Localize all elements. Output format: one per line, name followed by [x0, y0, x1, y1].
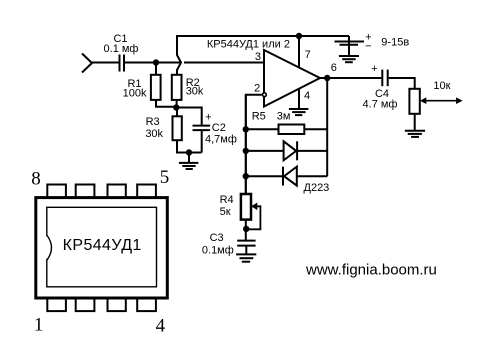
svg-text:3м: 3м	[277, 110, 291, 122]
capacitor C4	[381, 70, 383, 87]
diode VD1	[246, 150, 284, 152]
resistor R5	[246, 128, 279, 130]
svg-text:R4: R4	[220, 194, 234, 206]
pin 2 wire	[246, 95, 262, 194]
svg-text:C2: C2	[212, 122, 226, 134]
svg-text:4.7 мф: 4.7 мф	[363, 99, 398, 111]
battery plates 9-15v	[335, 41, 365, 43]
ground under R3/C2	[188, 153, 190, 163]
wire node B to C2	[176, 108, 201, 125]
R4 wiper	[246, 206, 260, 229]
op-amp U1	[264, 50, 320, 107]
IC package outline	[36, 198, 168, 298]
battery stem	[348, 36, 350, 56]
svg-text:www.fignia.boom.ru: www.fignia.boom.ru	[305, 261, 437, 278]
ground under battery	[339, 55, 359, 57]
capacitor C3	[237, 240, 255, 242]
top supply rail	[176, 35, 349, 37]
capacitor C2	[193, 125, 211, 127]
junction dot R4/C3	[243, 226, 249, 232]
capacitor C1	[119, 55, 121, 72]
junction dot pin7	[296, 33, 302, 39]
svg-text:R5: R5	[252, 110, 266, 122]
wire C4 to pot	[389, 78, 415, 89]
svg-text:7: 7	[305, 49, 311, 61]
svg-text:R3: R3	[146, 116, 160, 128]
IC pin 4 box bottom	[137, 298, 156, 311]
svg-text:4: 4	[304, 90, 310, 102]
IC pin 6 box top	[108, 185, 126, 198]
node B junction dot	[173, 104, 179, 110]
pin 4 wire	[298, 89, 300, 108]
junction dot	[186, 149, 192, 155]
svg-text:4,7мф: 4,7мф	[205, 134, 237, 146]
svg-text:−: −	[365, 41, 371, 53]
svg-text:0.1 мф: 0.1 мф	[104, 43, 139, 55]
pin 7 wire	[298, 36, 300, 68]
ground at pin 4	[289, 108, 309, 110]
svg-text:6: 6	[331, 62, 337, 74]
wire R4 to C3	[245, 220, 247, 240]
svg-text:C3: C3	[210, 232, 224, 244]
potentiometer R4 body	[241, 194, 251, 220]
right feedback rail	[326, 78, 328, 176]
output junction dot	[324, 75, 330, 81]
output wire pin 6	[320, 77, 381, 79]
pot wiper double arrow	[424, 100, 458, 102]
IC pin 3 box bottom	[108, 298, 126, 311]
feedback left rail	[245, 95, 247, 194]
wire hop crossover	[177, 36, 181, 75]
svg-text:10к: 10к	[433, 80, 450, 92]
diode VD2	[246, 175, 283, 177]
bottom rail R3-C2	[176, 152, 202, 154]
input terminal	[82, 54, 92, 73]
wire C1 to opamp pin3	[125, 62, 181, 64]
svg-text:2: 2	[254, 82, 260, 94]
svg-text:5к: 5к	[220, 206, 231, 218]
potentiometer 10k body	[409, 89, 419, 114]
svg-text:+: +	[371, 63, 377, 75]
svg-text:30k: 30k	[145, 128, 163, 140]
svg-text:0.1мф: 0.1мф	[202, 244, 234, 256]
svg-text:4: 4	[156, 316, 166, 337]
junction dots on left rail	[243, 126, 249, 132]
svg-text:КР544УД1 или 2: КР544УД1 или 2	[207, 38, 290, 50]
node A junction dot	[153, 59, 159, 65]
svg-text:9-15в: 9-15в	[381, 36, 409, 48]
svg-text:КР544УД1: КР544УД1	[63, 237, 142, 254]
resistor R2	[172, 75, 182, 100]
svg-text:3: 3	[255, 51, 261, 63]
ground under pot	[414, 114, 416, 131]
svg-text:30k: 30k	[186, 85, 204, 97]
svg-text:+: +	[205, 111, 211, 123]
wire input to C1	[92, 62, 119, 64]
svg-text:1: 1	[34, 315, 44, 336]
IC pin 2 box bottom	[76, 298, 95, 311]
ground under C3	[236, 253, 256, 255]
svg-text:8: 8	[31, 169, 41, 190]
svg-text:100k: 100k	[123, 88, 147, 100]
resistor R3	[176, 108, 178, 117]
IC pin 8 box top	[47, 185, 66, 198]
IC notch	[46, 237, 48, 259]
IC pin 5 box top	[137, 185, 156, 198]
IC pin 7 box top	[76, 185, 95, 198]
resistor R1	[155, 63, 157, 75]
IC inner rect	[47, 207, 157, 286]
svg-text:Д223: Д223	[304, 182, 330, 194]
IC pin 1 box bottom	[47, 298, 66, 311]
svg-text:5: 5	[160, 167, 170, 188]
pin 2 inversion circle	[263, 93, 267, 97]
